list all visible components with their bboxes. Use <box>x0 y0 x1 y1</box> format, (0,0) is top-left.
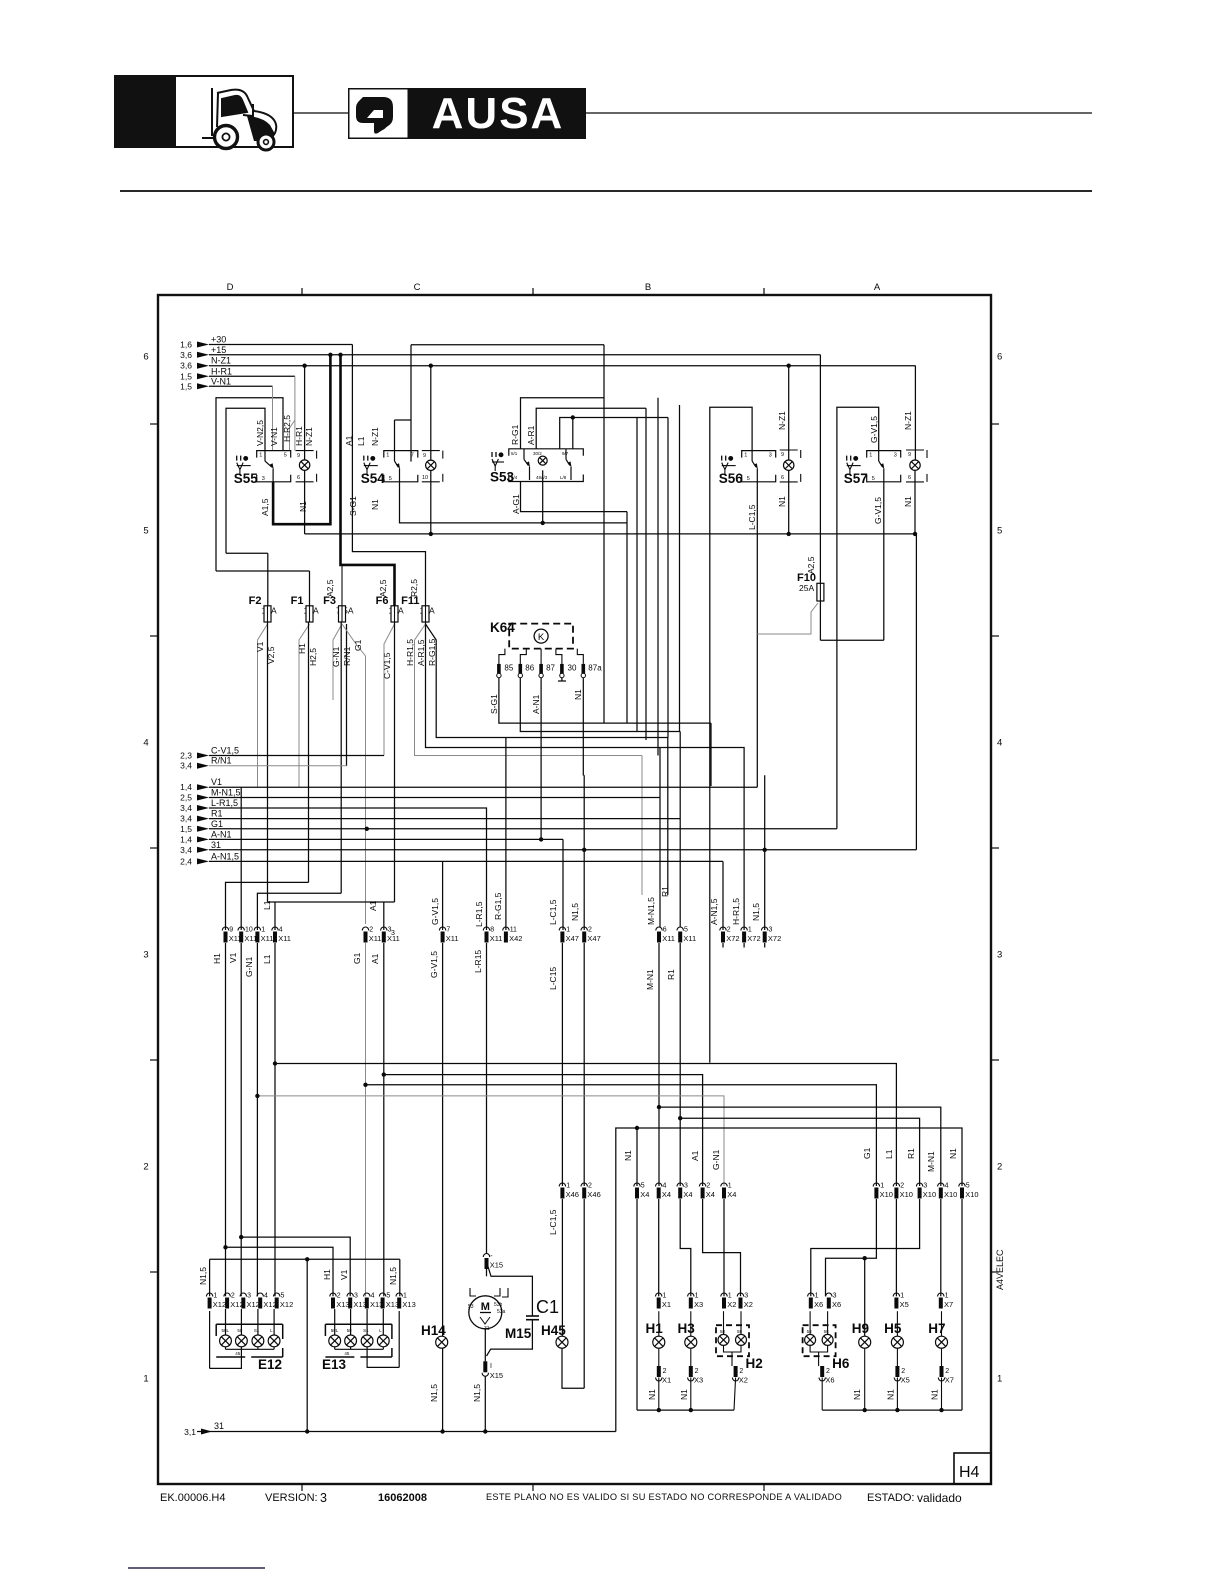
svg-text:X3: X3 <box>694 1376 703 1385</box>
svg-text:D: D <box>227 282 234 293</box>
svg-text:N1: N1 <box>777 496 787 507</box>
svg-text:1: 1 <box>213 1293 217 1300</box>
svg-text:5: 5 <box>872 476 875 482</box>
svg-text:X4: X4 <box>662 1190 671 1199</box>
svg-text:X10: X10 <box>880 1190 893 1199</box>
svg-text:4: 4 <box>997 738 1002 749</box>
svg-text:H1: H1 <box>297 643 307 654</box>
svg-text:H1: H1 <box>212 953 222 964</box>
svg-text:8: 8 <box>490 927 494 934</box>
svg-text:45: 45 <box>344 1351 350 1356</box>
svg-text:X13: X13 <box>402 1300 415 1309</box>
svg-text:R/N1: R/N1 <box>211 756 232 766</box>
svg-text:X72: X72 <box>747 934 760 943</box>
svg-text:2: 2 <box>900 1183 904 1190</box>
svg-text:X72: X72 <box>768 934 781 943</box>
svg-text:2: 2 <box>739 1368 743 1375</box>
svg-text:ESTE PLANO NO ES VALIDO SI SU: ESTE PLANO NO ES VALIDO SI SU ESTADO NO … <box>486 1492 842 1502</box>
svg-text:A2,5: A2,5 <box>378 579 388 597</box>
svg-text:N1: N1 <box>930 1389 940 1400</box>
svg-text:3: 3 <box>769 453 772 459</box>
svg-text:H2,5: H2,5 <box>308 648 318 666</box>
svg-text:31: 31 <box>211 840 221 850</box>
svg-text:X4: X4 <box>727 1190 736 1199</box>
svg-text:K64: K64 <box>490 620 515 635</box>
svg-text:S55: S55 <box>234 471 259 486</box>
svg-text:5/1: 5/1 <box>511 451 518 456</box>
svg-text:X6: X6 <box>814 1300 823 1309</box>
svg-text:X12: X12 <box>247 1300 260 1309</box>
svg-text:53: 53 <box>468 1304 474 1310</box>
svg-text:R1: R1 <box>211 809 223 819</box>
svg-text:87a: 87a <box>588 664 602 673</box>
svg-text:2: 2 <box>369 927 373 934</box>
svg-text:M: M <box>481 1301 490 1313</box>
svg-text:N1: N1 <box>573 689 583 700</box>
svg-text:B: B <box>645 282 651 293</box>
svg-text:1,5: 1,5 <box>180 824 192 834</box>
svg-text:A: A <box>874 282 881 293</box>
svg-text:1: 1 <box>997 1374 1002 1385</box>
svg-text:5: 5 <box>143 526 148 537</box>
svg-text:1: 1 <box>945 1293 949 1300</box>
svg-text:E13: E13 <box>322 1357 347 1372</box>
svg-text:45: 45 <box>235 1351 241 1356</box>
svg-text:1: 1 <box>386 453 389 459</box>
svg-text:H1: H1 <box>322 1269 332 1280</box>
svg-text:2: 2 <box>706 1183 710 1190</box>
svg-text:31: 31 <box>214 1421 224 1431</box>
svg-text:X6: X6 <box>825 1376 834 1385</box>
svg-text:58: 58 <box>807 1329 813 1334</box>
svg-text:H6: H6 <box>832 1356 850 1371</box>
svg-text:6: 6 <box>297 475 300 481</box>
svg-text:X4: X4 <box>706 1190 715 1199</box>
svg-text:2,3: 2,3 <box>180 751 192 761</box>
svg-text:L-R1,5: L-R1,5 <box>474 901 484 927</box>
svg-text:H5: H5 <box>884 1321 902 1336</box>
svg-text:V-N2,5: V-N2,5 <box>255 420 265 446</box>
svg-text:6/4: 6/4 <box>511 475 518 480</box>
svg-text:X11: X11 <box>662 934 675 943</box>
svg-text:53b: 53b <box>494 1302 503 1308</box>
svg-text:G1: G1 <box>352 952 362 964</box>
svg-text:2,4: 2,4 <box>180 856 192 866</box>
svg-text:3: 3 <box>997 950 1002 961</box>
svg-text:G-V1,5: G-V1,5 <box>873 497 883 524</box>
svg-text:30/2: 30/2 <box>533 451 542 456</box>
svg-text:N1,5: N1,5 <box>751 903 761 921</box>
svg-text:A-G1: A-G1 <box>511 494 521 514</box>
svg-text:A4VELEC: A4VELEC <box>995 1249 1005 1290</box>
svg-text:H2: H2 <box>746 1356 763 1371</box>
svg-text:5: 5 <box>386 1293 390 1300</box>
svg-text:S-G1: S-G1 <box>489 694 499 714</box>
svg-text:G1: G1 <box>211 819 223 829</box>
svg-text:1,4: 1,4 <box>180 834 192 844</box>
svg-text:2: 2 <box>727 927 731 934</box>
svg-text:G-N1: G-N1 <box>331 646 341 667</box>
svg-text:L-C1,5: L-C1,5 <box>548 1209 558 1235</box>
svg-text:F1: F1 <box>291 595 304 607</box>
svg-text:3: 3 <box>923 1183 927 1190</box>
svg-text:53a: 53a <box>497 1309 506 1315</box>
svg-text:N1: N1 <box>679 1389 689 1400</box>
svg-text:87: 87 <box>546 664 555 673</box>
svg-text:3,6: 3,6 <box>180 361 192 371</box>
svg-text:+30: +30 <box>211 335 226 345</box>
svg-text:X10: X10 <box>965 1190 978 1199</box>
svg-text:V1: V1 <box>255 641 265 652</box>
svg-text:C: C <box>414 282 421 293</box>
svg-text:L-C1,5: L-C1,5 <box>548 899 558 925</box>
svg-text:2: 2 <box>588 927 592 934</box>
svg-text:X15: X15 <box>490 1371 503 1380</box>
svg-text:H9: H9 <box>852 1321 869 1336</box>
svg-text:2: 2 <box>901 1368 905 1375</box>
svg-text:5: 5 <box>966 1183 970 1190</box>
svg-text:3: 3 <box>247 1293 251 1300</box>
svg-text:1: 1 <box>815 1293 819 1300</box>
svg-text:X1: X1 <box>662 1300 671 1309</box>
svg-text:A1,5: A1,5 <box>260 498 270 516</box>
svg-text:3,6: 3,6 <box>180 350 192 360</box>
svg-text:S1: S1 <box>254 1328 260 1333</box>
svg-text:1,6: 1,6 <box>180 340 192 350</box>
svg-text:G-N1: G-N1 <box>711 1149 721 1170</box>
svg-text:H-R1,5: H-R1,5 <box>731 898 741 925</box>
svg-text:9: 9 <box>781 452 784 458</box>
svg-text:R/N1: R/N1 <box>342 646 352 666</box>
svg-text:AUSA: AUSA <box>432 89 565 138</box>
svg-text:3: 3 <box>354 1293 358 1300</box>
svg-text:V1: V1 <box>339 1269 349 1280</box>
svg-text:C1: C1 <box>536 1297 559 1317</box>
svg-text:5: 5 <box>389 476 392 482</box>
svg-text:X2: X2 <box>727 1300 736 1309</box>
svg-text:L-R1,5: L-R1,5 <box>211 798 238 808</box>
svg-text:L-R15: L-R15 <box>473 950 483 973</box>
svg-text:X3: X3 <box>694 1300 703 1309</box>
svg-text:X10: X10 <box>944 1190 957 1199</box>
svg-text:R-G1,5: R-G1,5 <box>427 638 437 666</box>
svg-text:S54: S54 <box>361 471 386 486</box>
svg-text:1: 1 <box>900 1293 904 1300</box>
svg-text:X11: X11 <box>278 934 291 943</box>
svg-text:5: 5 <box>641 1183 645 1190</box>
svg-text:V1: V1 <box>228 952 238 963</box>
svg-text:9: 9 <box>297 453 300 459</box>
svg-text:16062008: 16062008 <box>378 1492 427 1504</box>
svg-text:X72: X72 <box>726 934 739 943</box>
svg-text:X12: X12 <box>280 1300 293 1309</box>
svg-text:1: 1 <box>566 1183 570 1190</box>
svg-text:9: 9 <box>229 927 233 934</box>
svg-text:X12: X12 <box>213 1300 226 1309</box>
svg-text:6: 6 <box>663 927 667 934</box>
svg-text:2: 2 <box>695 1368 699 1375</box>
svg-text:G-V1,5: G-V1,5 <box>429 951 439 978</box>
svg-text:1,5: 1,5 <box>180 371 192 381</box>
svg-text:L-C1,5: L-C1,5 <box>747 504 757 530</box>
svg-text:V1: V1 <box>211 777 222 787</box>
svg-text:3: 3 <box>391 930 395 937</box>
svg-text:11: 11 <box>510 927 517 934</box>
svg-text:5: 5 <box>284 453 287 459</box>
svg-text:V2,5: V2,5 <box>266 646 276 664</box>
svg-text:H4: H4 <box>959 1464 980 1481</box>
svg-text:3: 3 <box>769 927 773 934</box>
svg-text:H1: H1 <box>646 1321 664 1336</box>
svg-text:2: 2 <box>588 1183 592 1190</box>
svg-text:1: 1 <box>728 1183 732 1190</box>
svg-text:X47: X47 <box>587 934 600 943</box>
svg-text:2: 2 <box>826 1368 830 1375</box>
svg-text:4: 4 <box>143 738 148 749</box>
svg-text:N1: N1 <box>647 1389 657 1400</box>
svg-text:C-V1,5: C-V1,5 <box>211 746 239 756</box>
svg-text:6: 6 <box>908 475 911 481</box>
svg-text:X1: X1 <box>662 1376 671 1385</box>
svg-text:S56: S56 <box>719 471 744 486</box>
svg-text:A-N1: A-N1 <box>211 829 232 839</box>
svg-text:S-G1: S-G1 <box>348 496 358 516</box>
svg-text:6: 6 <box>143 352 148 363</box>
svg-text:R1: R1 <box>666 969 676 980</box>
svg-text:1: 1 <box>566 927 570 934</box>
svg-text:58L: 58L <box>331 1328 339 1333</box>
svg-text:2: 2 <box>663 1368 667 1375</box>
svg-text:G1: G1 <box>353 639 363 651</box>
svg-text:1: 1 <box>403 1293 407 1300</box>
svg-text:R1: R1 <box>906 1148 916 1159</box>
svg-text:N1: N1 <box>885 1389 895 1400</box>
svg-text:X4: X4 <box>683 1190 692 1199</box>
svg-text:5: 5 <box>747 476 750 482</box>
svg-text:A1: A1 <box>368 900 378 911</box>
svg-text:2: 2 <box>231 1293 235 1300</box>
svg-text:6: 6 <box>781 475 784 481</box>
svg-text:4: 4 <box>264 1293 268 1300</box>
svg-text:G1: G1 <box>862 1147 872 1159</box>
svg-text:L/8: L/8 <box>560 475 567 480</box>
svg-text:5: 5 <box>997 526 1002 537</box>
svg-text:L1: L1 <box>356 436 366 446</box>
svg-text:1,4: 1,4 <box>180 782 192 792</box>
svg-text:3,4: 3,4 <box>180 803 192 813</box>
svg-text:R2,5: R2,5 <box>409 579 419 597</box>
svg-text:G-V1,5: G-V1,5 <box>430 898 440 925</box>
svg-text:58: 58 <box>237 1328 243 1333</box>
svg-text:85: 85 <box>504 664 513 673</box>
svg-text:X46: X46 <box>587 1190 600 1199</box>
svg-text:1: 1 <box>744 453 747 459</box>
svg-text:3,4: 3,4 <box>180 761 192 771</box>
svg-text:X5: X5 <box>900 1300 909 1309</box>
svg-text:1: 1 <box>663 1293 667 1300</box>
svg-text:X11: X11 <box>446 934 459 943</box>
svg-text:L1: L1 <box>884 1149 894 1159</box>
svg-text:10: 10 <box>422 475 428 481</box>
svg-text:F2: F2 <box>249 595 262 607</box>
svg-text:1: 1 <box>259 453 262 459</box>
svg-text:1: 1 <box>728 1293 732 1300</box>
svg-text:M-N1,5: M-N1,5 <box>211 788 241 798</box>
svg-text:1: 1 <box>880 1183 884 1190</box>
svg-text:6: 6 <box>997 352 1002 363</box>
svg-text:N1,5: N1,5 <box>570 903 580 921</box>
svg-text:X15: X15 <box>490 1261 503 1270</box>
svg-text:3: 3 <box>262 476 265 482</box>
svg-text:58: 58 <box>347 1328 353 1333</box>
svg-text:N1: N1 <box>852 1389 862 1400</box>
svg-text:5: 5 <box>281 1293 285 1300</box>
svg-text:3,4: 3,4 <box>180 814 192 824</box>
svg-text:N1: N1 <box>948 1148 958 1159</box>
svg-text:L1: L1 <box>262 954 272 964</box>
svg-text:N1,5: N1,5 <box>388 1267 398 1285</box>
svg-text:1: 1 <box>695 1293 699 1300</box>
svg-text:N1: N1 <box>623 1150 633 1161</box>
svg-text:X7: X7 <box>944 1300 953 1309</box>
svg-text:2: 2 <box>337 1293 341 1300</box>
svg-text:E12: E12 <box>258 1357 282 1372</box>
svg-text:X5: X5 <box>901 1376 910 1385</box>
svg-text:N1,5: N1,5 <box>198 1267 208 1285</box>
svg-text:9/7: 9/7 <box>562 451 569 456</box>
svg-text:N-Z1: N-Z1 <box>903 411 913 430</box>
svg-text:M-N1,5: M-N1,5 <box>646 897 656 925</box>
svg-text:EK.00006.H4: EK.00006.H4 <box>160 1492 225 1504</box>
svg-text:X4: X4 <box>640 1190 649 1199</box>
svg-text:49a/3: 49a/3 <box>536 475 548 480</box>
svg-text:10: 10 <box>245 927 253 934</box>
svg-text:86: 86 <box>525 664 534 673</box>
svg-text:X2: X2 <box>739 1376 748 1385</box>
svg-text:N1: N1 <box>370 499 380 510</box>
svg-text:N-Z1: N-Z1 <box>211 356 231 366</box>
svg-text:1: 1 <box>261 927 265 934</box>
svg-text:58L: 58L <box>222 1328 230 1333</box>
svg-text:A2,5: A2,5 <box>806 556 816 574</box>
svg-text:A-N1,5: A-N1,5 <box>709 898 719 925</box>
svg-text:R-G1: R-G1 <box>510 424 520 445</box>
svg-text:1,5: 1,5 <box>180 381 192 391</box>
svg-text:N1,5: N1,5 <box>429 1384 439 1402</box>
svg-text:M15: M15 <box>505 1326 532 1341</box>
svg-text:2: 2 <box>945 1368 949 1375</box>
svg-text:N-Z1: N-Z1 <box>370 427 380 446</box>
svg-text:R-G1,5: R-G1,5 <box>493 892 503 920</box>
svg-text:1: 1 <box>748 927 752 934</box>
svg-text:N-Z1: N-Z1 <box>777 411 787 430</box>
svg-text:H7: H7 <box>928 1321 945 1336</box>
svg-text:1: 1 <box>143 1374 148 1385</box>
svg-text:A2,5: A2,5 <box>325 579 335 597</box>
svg-text:58: 58 <box>737 1329 743 1334</box>
svg-text:25A: 25A <box>799 583 814 593</box>
svg-text:A-N1,5: A-N1,5 <box>211 851 239 861</box>
svg-text:1: 1 <box>869 453 872 459</box>
svg-text:4: 4 <box>663 1183 667 1190</box>
svg-text:5: 5 <box>684 927 688 934</box>
svg-text:X13: X13 <box>336 1300 349 1309</box>
svg-text:H-R1,5: H-R1,5 <box>405 639 415 666</box>
svg-text:V-N1: V-N1 <box>211 376 231 386</box>
svg-text:I: I <box>490 1363 492 1370</box>
svg-text:X2: X2 <box>744 1300 753 1309</box>
svg-text:X13: X13 <box>386 1300 399 1309</box>
svg-text:H-R1: H-R1 <box>294 426 304 446</box>
svg-text:M-N1: M-N1 <box>645 969 655 990</box>
svg-text:X11: X11 <box>683 934 696 943</box>
svg-text:R1: R1 <box>660 886 670 897</box>
svg-text:G-N1: G-N1 <box>244 956 254 977</box>
svg-text:X10: X10 <box>923 1190 936 1199</box>
svg-text:X11: X11 <box>369 934 382 943</box>
svg-text:3: 3 <box>684 1183 688 1190</box>
svg-text:H3: H3 <box>678 1321 696 1336</box>
svg-text:3: 3 <box>320 1491 327 1505</box>
svg-text:L-C15: L-C15 <box>548 967 558 990</box>
svg-text:N-Z1: N-Z1 <box>304 427 314 446</box>
svg-text:K: K <box>538 632 545 643</box>
svg-text:30: 30 <box>568 664 577 673</box>
svg-text:L1: L1 <box>262 900 272 910</box>
svg-text:X11: X11 <box>490 934 503 943</box>
svg-text:S1: S1 <box>363 1328 369 1333</box>
svg-text:N1: N1 <box>903 496 913 507</box>
svg-text:X46: X46 <box>566 1190 579 1199</box>
svg-text:VERSION:: VERSION: <box>265 1492 318 1504</box>
svg-text:3: 3 <box>833 1293 837 1300</box>
svg-text:7: 7 <box>446 927 450 934</box>
svg-text:+15: +15 <box>211 345 226 355</box>
svg-text:4: 4 <box>279 927 283 934</box>
svg-text:58: 58 <box>824 1329 830 1334</box>
svg-text:X10: X10 <box>900 1190 913 1199</box>
svg-text:validado: validado <box>917 1491 962 1505</box>
svg-text:2: 2 <box>143 1162 148 1173</box>
svg-text:X11: X11 <box>261 934 274 943</box>
svg-text:2: 2 <box>997 1162 1002 1173</box>
svg-text:3,1: 3,1 <box>184 1427 196 1437</box>
svg-text:C-V1,5: C-V1,5 <box>382 652 392 679</box>
svg-text:X6: X6 <box>832 1300 841 1309</box>
svg-text:H-R2,5: H-R2,5 <box>282 415 292 442</box>
svg-text:A1: A1 <box>344 435 354 446</box>
svg-text:G-V1,5: G-V1,5 <box>869 416 879 443</box>
svg-text:4: 4 <box>945 1183 949 1190</box>
svg-text:X47: X47 <box>566 934 579 943</box>
svg-text:58: 58 <box>720 1329 726 1334</box>
svg-text:3: 3 <box>143 950 148 961</box>
svg-text:A-N1: A-N1 <box>531 694 541 714</box>
svg-text:3: 3 <box>744 1293 748 1300</box>
svg-text:M-N1: M-N1 <box>926 1151 936 1172</box>
svg-text:2,5: 2,5 <box>180 793 192 803</box>
svg-text:A1: A1 <box>370 953 380 964</box>
svg-text:V-N1: V-N1 <box>269 427 279 446</box>
svg-text:9: 9 <box>423 453 426 459</box>
svg-text:3: 3 <box>894 453 897 459</box>
svg-text:S57: S57 <box>844 471 868 486</box>
svg-text:X11: X11 <box>244 934 257 943</box>
svg-text:ESTADO:: ESTADO: <box>867 1492 914 1504</box>
svg-text:X42: X42 <box>509 934 522 943</box>
svg-text:X13: X13 <box>353 1300 366 1309</box>
svg-text:3,4: 3,4 <box>180 845 192 855</box>
